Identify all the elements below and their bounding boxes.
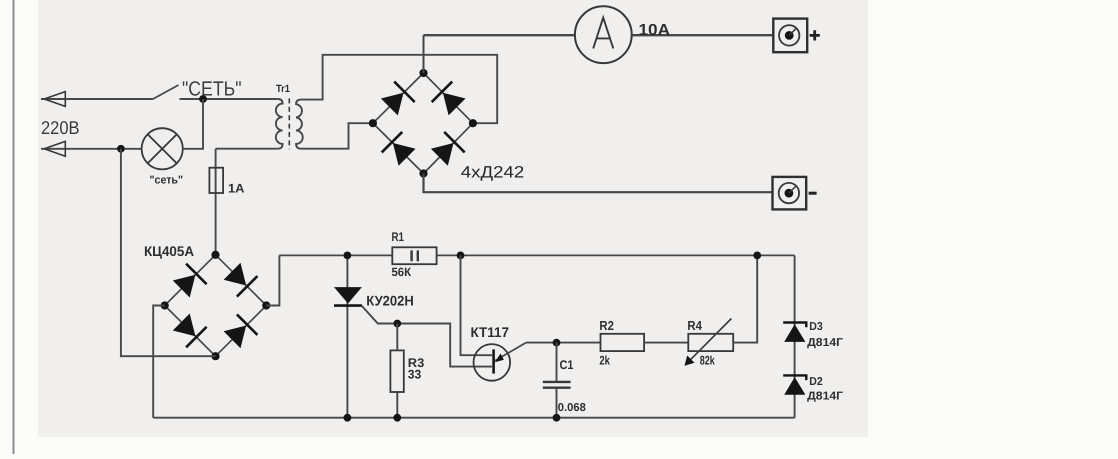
wire: lamp to switch node [183,99,203,149]
svg-text:R1: R1 [392,230,405,244]
svg-text:D3: D3 [809,321,823,333]
terminal XT2 - circle [779,183,799,203]
svg-text:220В: 220В [41,117,80,138]
node: КЦ405А top AC [211,251,219,259]
svg-text:"сеть": "сеть" [150,175,184,187]
node: switch/lamp junction [199,95,207,103]
node: C1 top junction [553,339,561,347]
wire: R4 to rail [733,255,757,342]
terminal XT1 + contact dot [785,31,794,40]
zener D2 cathode bar [783,375,806,380]
wire: L1 after switch to transformer [180,98,278,100]
svg-text:4хД242: 4хД242 [461,164,525,182]
wire: emitter to C1 node and R2 [526,342,601,344]
wire: control top rail [279,254,794,256]
thyristor VS1 КУ202Н [334,287,362,303]
КТ117 base bar [492,349,495,373]
wire: C1 bottom lead [556,389,558,418]
input arrow L1 [44,92,65,107]
node: КЦ405А bottom AC [211,352,219,360]
lamp HL1 "сеть" [142,128,183,169]
resistor R1 [392,247,436,264]
svg-text:Tr1: Tr1 [276,83,290,95]
node: bridge top (+) [419,69,427,77]
svg-text:0.068: 0.068 [558,402,587,414]
svg-text:D2: D2 [809,376,823,388]
wire: secondary bottom to bridge left node [301,123,372,149]
wire: mains line L2 [41,148,142,150]
resistor R3 [390,350,403,392]
node: gate/R3 junction [393,320,401,328]
transformer Tr1 primary winding [276,99,283,149]
node: bridge left AC [369,119,377,127]
КТ117 emitter [495,343,526,361]
resistor R2 [601,334,645,351]
svg-text:"СЕТЬ": "СЕТЬ" [182,78,242,101]
node: L2 / control tap junction [117,145,125,153]
zener D2 [784,377,805,395]
R1 power marks [412,250,418,261]
diode VD3 (bottom-left arm) [393,143,416,166]
wire: bridge bottom to minus terminal [424,174,773,193]
transformer Tr1 secondary winding [296,100,303,149]
svg-text:56К: 56К [392,265,412,279]
node: bridge bottom (-) [419,169,427,177]
transistor VT1 КТ117 body [474,344,511,381]
svg-text:Д814Г: Д814Г [807,391,844,403]
diode VD5c (left-bottom arm) [173,314,196,337]
ammeter PA1 [575,6,632,63]
node: thyristor bottom junction [344,414,352,422]
node: КЦ405А right (+) [262,301,270,309]
wire: plus rail [424,34,774,36]
svg-text:R2: R2 [599,318,614,333]
svg-text:Д814Г: Д814Г [807,337,844,349]
svg-text:R4: R4 [687,318,702,333]
wire: thyristor gate [362,306,397,324]
svg-text:2k: 2k [599,354,610,368]
node: bridge right AC [469,119,477,127]
scanned schematic background [38,0,868,437]
label + [810,30,820,40]
input arrow L2 [44,141,65,156]
transformer core [288,98,290,149]
svg-text:1А: 1А [228,181,245,195]
resistor R4 [688,334,733,351]
fuse FU1 [209,168,223,193]
node: R4/rail junction [753,252,761,260]
svg-text:82k: 82k [700,354,715,368]
terminal XT1 + circle [779,25,799,45]
wire: R2 to R4 [644,342,688,344]
wire: R3 branch [396,324,398,418]
wire: L2 tap down to КЦ405А bottom [121,149,216,356]
svg-text:10А: 10А [639,22,671,39]
wire: control bottom rail [153,417,794,419]
wire: primary bottom to fuse [216,148,278,150]
svg-text:33: 33 [408,368,422,382]
zener D3 cathode bar [783,323,806,328]
wire: bridge top to plus rail [423,35,425,73]
wire: thyristor branch [346,255,348,417]
left page border line [13,0,15,454]
terminal XT2 - contact dot [785,189,794,198]
diode VD5d (bottom-right arm) [224,326,247,349]
diode VD5b (top-right arm) [224,263,247,286]
node: C1 bottom junction [553,414,561,422]
svg-text:КЦ405А: КЦ405А [144,243,194,259]
wire: zener branch [794,255,796,417]
diode VD4 (bottom-right arm) [431,143,454,166]
svg-text:КТ117: КТ117 [471,324,510,340]
wire: secondary top to bridge right node [301,55,497,123]
node: R3 bottom junction [393,414,401,422]
node: thyristor top junction [344,252,352,260]
svg-text:КУ202Н: КУ202Н [366,293,414,309]
wire: КЦ405А right to control top rail [266,255,279,305]
diode VD1 (left-top arm) [381,93,404,116]
terminal XT2 - square [773,177,807,210]
zener D3 [784,324,805,342]
wire: C1 top lead [556,343,558,381]
wire: mains line L1 [41,98,153,100]
R4 variable arrow [686,319,731,365]
capacitor C1 [543,382,571,388]
wire: gate node to base1 [397,324,492,367]
terminal XT1 + square [773,19,807,53]
wire: КЦ405А left to bottom rail [153,306,165,418]
diode VD5a (left-top arm) [173,275,196,298]
bridge VD1-VD4 frame [373,73,473,174]
bridge VD5 КЦ405А frame [165,255,267,356]
switch SA1 arm [153,85,179,99]
svg-text:C1: C1 [560,358,574,372]
wire: fuse vertical [215,149,217,255]
ammeter letter A [593,18,613,49]
wire: base2 from rail [461,255,493,355]
node: КЦ405А left (-) [161,301,169,309]
diode VD2 (right-top arm) [443,93,466,116]
node: rail/base2 junction [457,252,465,260]
label - [809,192,817,195]
